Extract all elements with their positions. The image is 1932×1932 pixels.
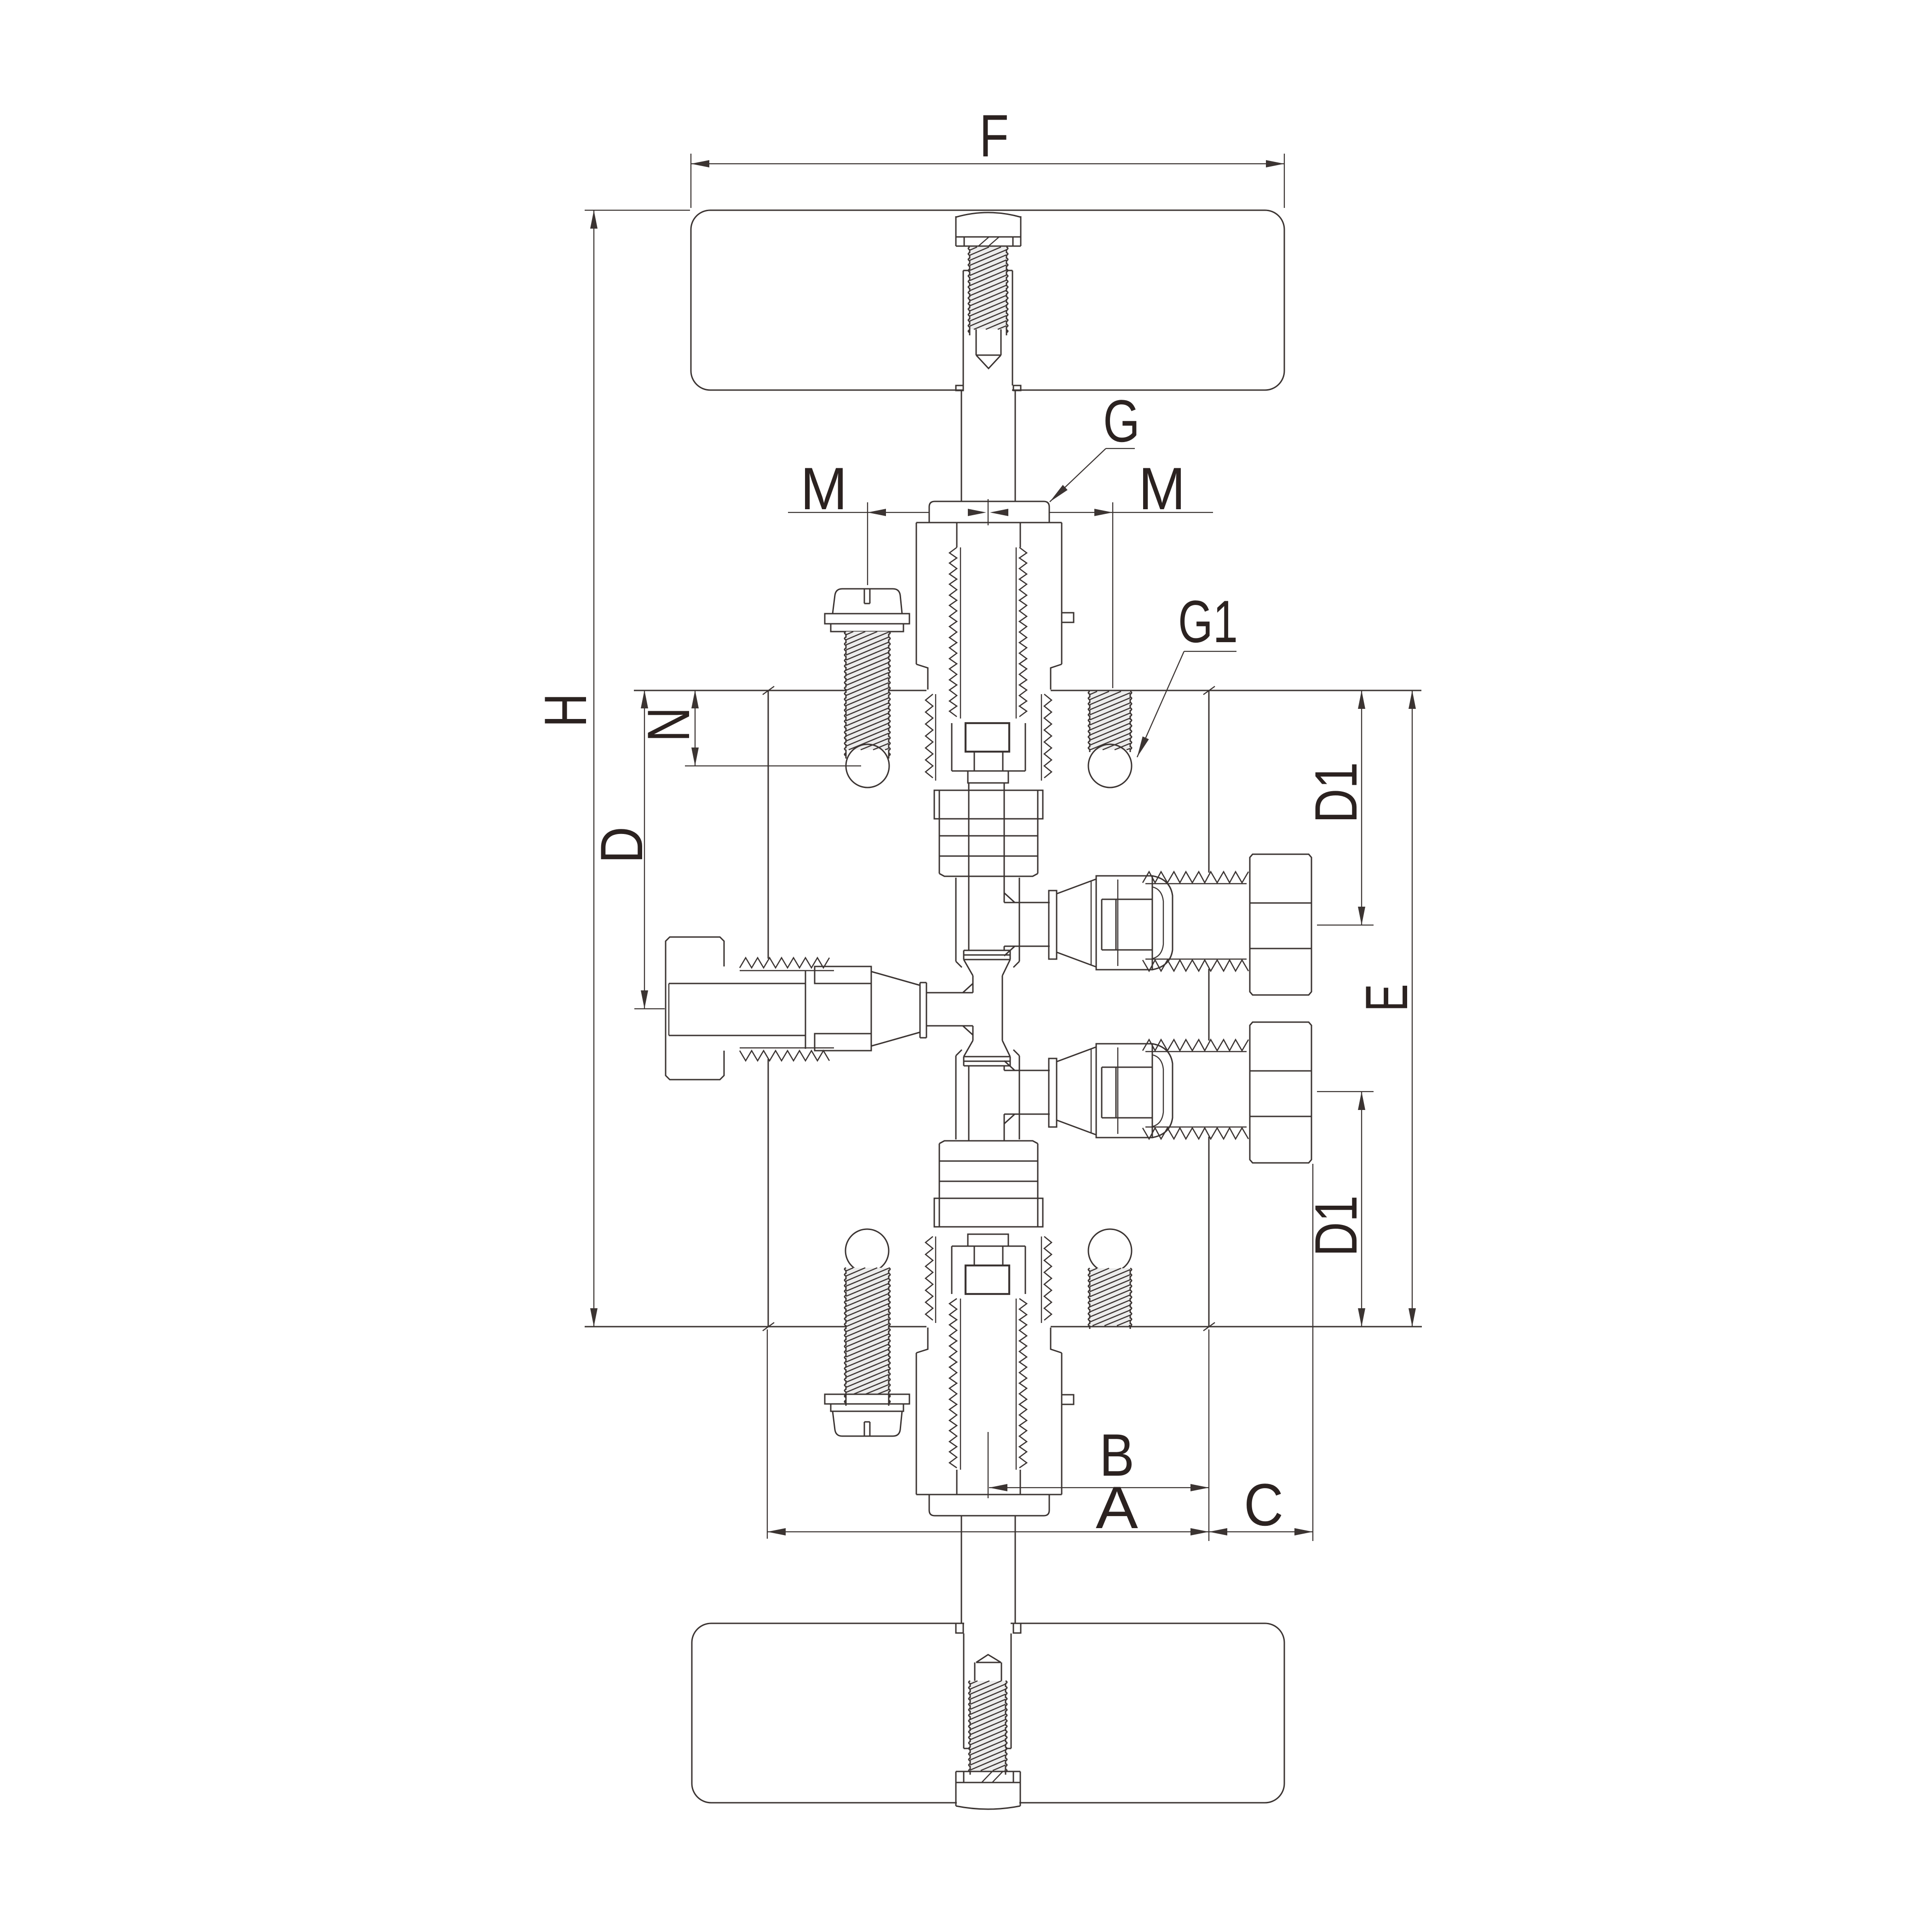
stem thread (bottom bonnet) [949, 1299, 957, 1468]
dimension F extension left [690, 154, 691, 208]
gland stack (bottom) [934, 1198, 1043, 1227]
dimension B tick [988, 1432, 989, 1498]
handle top edge gap for stem [964, 1621, 1011, 1627]
mounting bolt thread (bottom-left) [846, 1268, 889, 1394]
handle bar (bottom) [692, 1623, 1284, 1803]
right port fitting upper [1004, 902, 1050, 903]
handle boss notch left (bottom) [956, 1623, 963, 1633]
dimension N line [695, 690, 696, 766]
handle bottom edge gap for stem [964, 387, 1012, 393]
dimension N extension [685, 765, 861, 766]
packing gland (bottom) [951, 1246, 953, 1294]
dimension C line [1209, 1531, 1313, 1532]
leader G [1106, 448, 1135, 449]
manifold block top edge [634, 690, 846, 691]
left fitting gland and cone [805, 971, 806, 1049]
screw tip (top) [976, 329, 977, 355]
screw tip (bottom) [976, 1655, 1001, 1662]
stud ball (bottom-right) [1088, 1229, 1132, 1272]
dimension D1 bottom line [1361, 1092, 1362, 1327]
handle boss notch right (bottom) [1013, 1623, 1021, 1633]
svg-text:F: F [979, 102, 1009, 169]
bonnet tab (top) [1062, 613, 1074, 622]
dimension F extension right [1284, 154, 1285, 208]
mounting bolt head (top-left) [833, 589, 902, 614]
left fitting nut [666, 937, 724, 1080]
svg-text:C: C [1244, 1471, 1283, 1538]
bonnet hex (bottom) [929, 1495, 1049, 1516]
dimension D1 top extension [1317, 925, 1374, 926]
block corner break ticks [763, 686, 774, 695]
svg-text:M: M [800, 455, 847, 522]
dimension D extension [634, 1008, 665, 1009]
stud thread (bottom-right) [1090, 1268, 1130, 1326]
svg-text:E: E [1353, 984, 1420, 1012]
tube taper lower [964, 1041, 973, 1057]
screw thread (top) [970, 247, 1006, 329]
stem inside bonnet (bottom) [956, 1470, 958, 1495]
bonnet hex (top) [929, 501, 1049, 523]
dimension M center tick [988, 499, 989, 525]
dimension D1 bottom extension [1317, 1091, 1374, 1092]
tube taper upper [964, 960, 973, 976]
dimension A line [767, 1531, 1209, 1532]
screw housing (top) [963, 270, 964, 385]
block bore wall lower [955, 1056, 957, 1139]
bonnet thread (top) [926, 694, 933, 778]
svg-text:G: G [1103, 387, 1140, 454]
svg-text:D: D [588, 827, 655, 863]
dimension F line [691, 163, 1284, 164]
screw housing (bottom) [963, 1633, 965, 1748]
dimension H extension top [585, 210, 690, 211]
mounting bolt thread (top-left) [846, 632, 889, 750]
stem thread (top bonnet) [949, 547, 957, 717]
handle boss notch right (top) [1013, 385, 1021, 391]
handle bar (top) [691, 210, 1284, 390]
dimension AB extension right [1208, 1329, 1209, 1541]
screw cap (bottom) [956, 1771, 1020, 1772]
dimension D1 top line [1361, 690, 1362, 925]
right port fitting lower [1004, 1070, 1050, 1071]
screw cap (top) [956, 213, 1021, 217]
bonnet thread (bottom) [926, 1236, 933, 1320]
left fitting thread [740, 958, 829, 968]
bonnet tab (bottom) [1062, 1395, 1074, 1404]
gland stack (top) [934, 790, 1043, 819]
tube collar upper [964, 950, 1010, 951]
stem inside bonnet (top) [956, 523, 958, 547]
screw thread (bottom) [970, 1681, 1006, 1771]
dimension E line [1412, 690, 1413, 1327]
packing gland (top) [951, 723, 953, 771]
handle bottom edge gap for cap [957, 1800, 1019, 1806]
dimension M extension right [1112, 502, 1113, 688]
mounting bolt head (bottom-left) [825, 1394, 909, 1404]
flow tube lower [968, 1066, 970, 1141]
stem tube (top) [961, 391, 962, 501]
manifold block bottom edge [585, 1326, 846, 1328]
stud ball (top-right) [1088, 744, 1132, 788]
dimension B line [989, 1487, 1209, 1488]
stem tube (bottom) [961, 1516, 962, 1623]
svg-text:M: M [1138, 455, 1185, 522]
left port stub [926, 992, 973, 994]
dimension M extension left [867, 502, 868, 585]
dimension C extension [1312, 1164, 1313, 1541]
bolt ball (bottom-left) [845, 1229, 889, 1272]
svg-text:D1: D1 [1302, 762, 1369, 823]
dimension H line [593, 210, 594, 1327]
dimension D line [644, 690, 645, 1009]
dimension M line [788, 512, 929, 513]
handle boss notch left (top) [956, 385, 963, 391]
bolt ball (top-left) [846, 744, 889, 788]
svg-text:A: A [1096, 1474, 1138, 1541]
tube collar lower [964, 1056, 1010, 1058]
dimension A extension left [767, 1329, 768, 1539]
stud thread (top-right) [1090, 691, 1130, 750]
manifold block right edge [1208, 690, 1210, 873]
svg-text:H: H [532, 693, 599, 727]
dimension H extension bottom [585, 1326, 766, 1327]
flow tube upper [968, 783, 970, 950]
flow tube middle [972, 976, 974, 993]
svg-text:G1: G1 [1178, 588, 1238, 655]
manifold block left edge [768, 690, 769, 959]
leader G1 [1184, 651, 1236, 652]
block bore wall upper [955, 878, 957, 961]
